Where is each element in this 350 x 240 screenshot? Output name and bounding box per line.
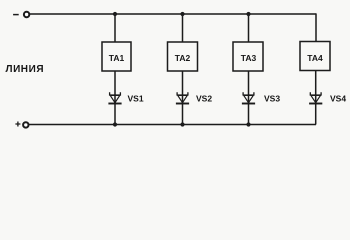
node junction top bus / TA3 bbox=[246, 12, 250, 16]
wire: drop to TA2 bbox=[182, 13, 184, 42]
svg-text:TA3: TA3 bbox=[241, 53, 257, 63]
terminal (bottom, open circle) bbox=[23, 122, 28, 127]
node junction bottom bus / VS1 bbox=[113, 122, 117, 126]
node junction top bus / TA1 bbox=[113, 12, 117, 16]
svg-text:VS1: VS1 bbox=[128, 94, 144, 104]
node junction bottom bus / VS3 bbox=[246, 122, 250, 126]
wire: bottom bus bbox=[29, 124, 316, 126]
wire: drop to TA1 bbox=[114, 13, 116, 42]
node junction bottom bus / VS2 bbox=[180, 122, 184, 126]
svg-text:ЛИНИЯ: ЛИНИЯ bbox=[6, 64, 45, 75]
transformer TA1 bbox=[102, 42, 131, 71]
svg-text:TA4: TA4 bbox=[307, 53, 323, 63]
wire: TA4 to VS4 to bottom bus corner bbox=[315, 71, 317, 125]
node junction top bus / TA2 bbox=[180, 12, 184, 16]
wire: TA1 to VS1 to bottom bus bbox=[114, 71, 116, 125]
svg-text:VS4: VS4 bbox=[330, 94, 346, 104]
wire: top bus corner down to TA4 bbox=[315, 13, 317, 41]
wire: top bus bbox=[30, 13, 316, 15]
terminal (top, open circle) bbox=[24, 12, 29, 17]
wire: TA3 to VS3 to bottom bus bbox=[248, 71, 250, 125]
svg-text:TA2: TA2 bbox=[175, 53, 191, 63]
zener diode VS1 bbox=[108, 92, 121, 103]
zener diode VS4 bbox=[309, 92, 322, 103]
wire: TA2 to VS2 to bottom bus bbox=[182, 71, 184, 125]
svg-text:VS3: VS3 bbox=[264, 94, 280, 104]
transformer TA3 bbox=[233, 42, 263, 71]
plus terminal label bbox=[15, 122, 20, 127]
wire: drop to TA3 bbox=[248, 13, 250, 42]
zener diode VS2 bbox=[176, 92, 189, 103]
transformer TA4 bbox=[300, 42, 330, 71]
zener diode VS3 bbox=[242, 92, 255, 103]
minus terminal label bbox=[13, 14, 19, 16]
transformer TA2 bbox=[168, 42, 198, 71]
svg-text:VS2: VS2 bbox=[196, 94, 212, 104]
svg-text:TA1: TA1 bbox=[109, 53, 125, 63]
